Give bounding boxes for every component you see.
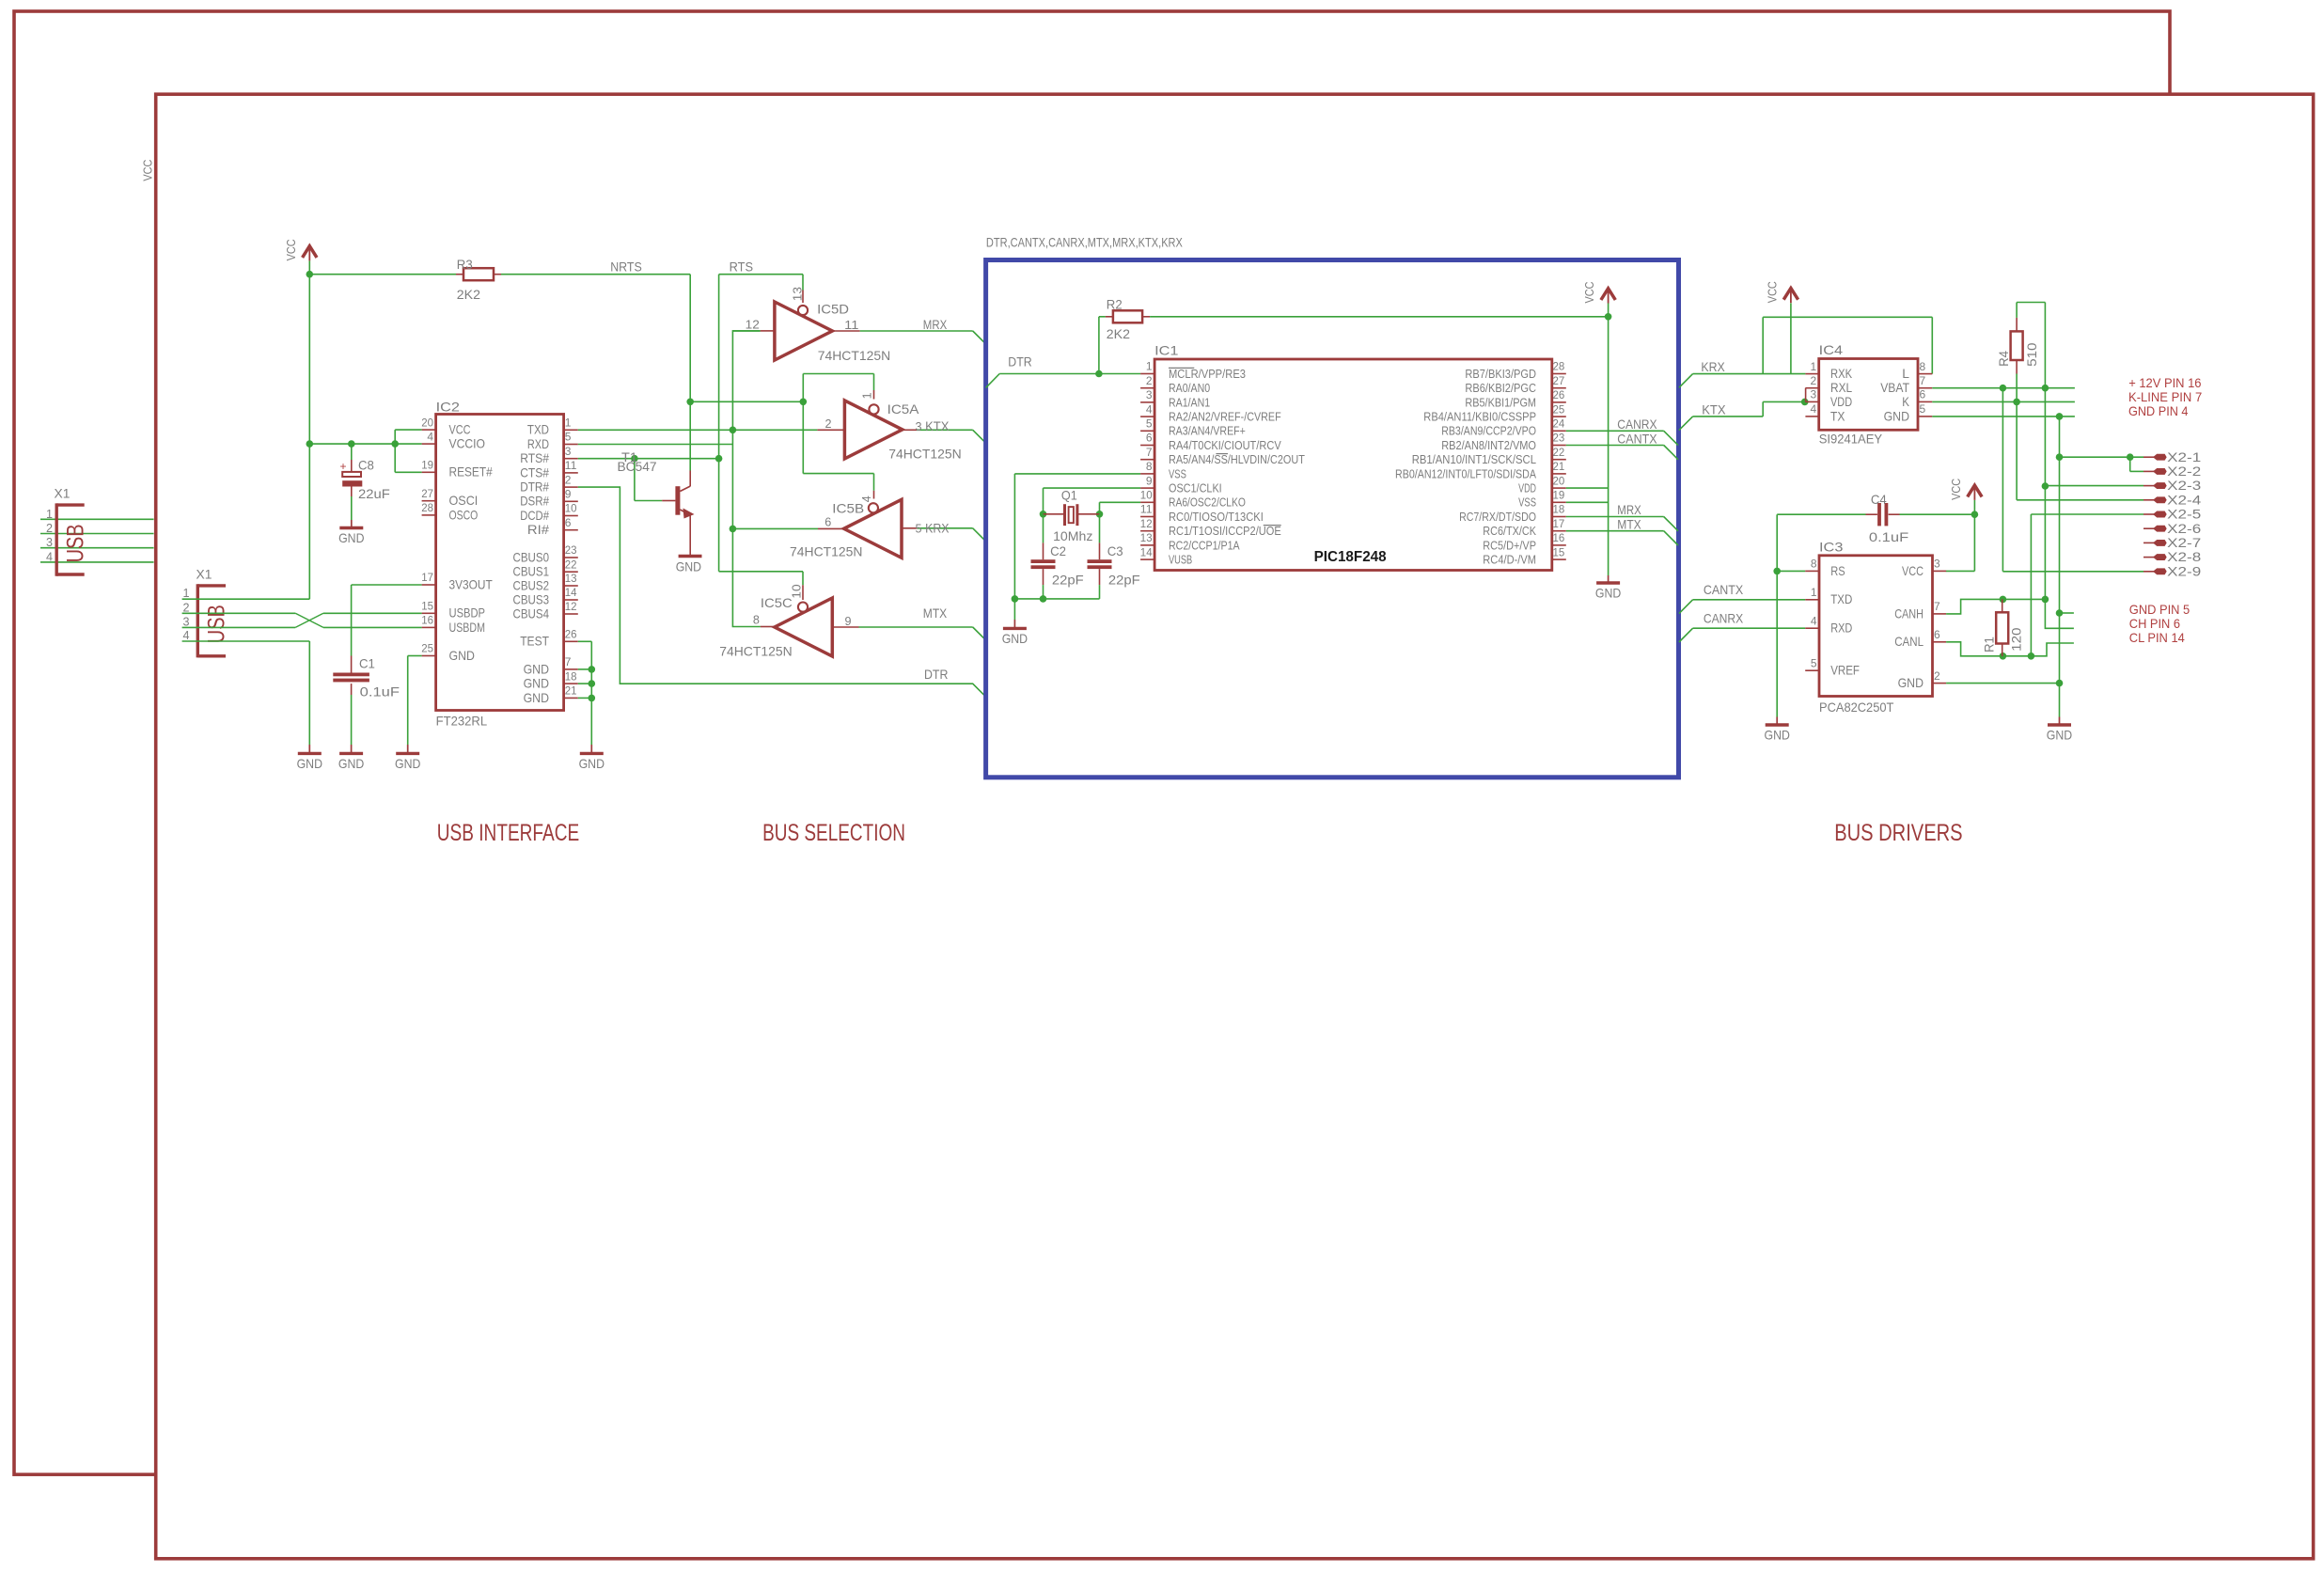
svg-text:18: 18 <box>565 669 577 683</box>
svg-text:21: 21 <box>1553 460 1565 473</box>
svg-text:CBUS3: CBUS3 <box>513 592 550 606</box>
svg-text:X1: X1 <box>196 567 212 582</box>
svg-text:CANL: CANL <box>1894 635 1924 649</box>
svg-text:CANH: CANH <box>1894 606 1924 621</box>
svg-text:5: 5 <box>565 431 572 444</box>
svg-text:L: L <box>1902 367 1909 381</box>
svg-text:19: 19 <box>421 459 433 472</box>
svg-text:2: 2 <box>1146 374 1153 387</box>
svg-text:IC1: IC1 <box>1154 343 1179 358</box>
svg-text:RC7/RX/DT/SDO: RC7/RX/DT/SDO <box>1459 511 1536 524</box>
svg-text:5: 5 <box>916 523 922 536</box>
svg-text:6: 6 <box>565 516 572 529</box>
svg-text:VCC: VCC <box>284 239 298 260</box>
svg-text:GND: GND <box>676 558 701 574</box>
svg-text:22: 22 <box>1553 446 1565 459</box>
svg-text:VCC: VCC <box>1582 282 1596 304</box>
svg-text:RC0/TIOSO/T13CKI: RC0/TIOSO/T13CKI <box>1169 511 1264 524</box>
svg-text:2: 2 <box>46 522 53 535</box>
svg-text:17: 17 <box>1553 517 1565 530</box>
svg-text:RB1/AN10/INT1/SCK/SCL: RB1/AN10/INT1/SCK/SCL <box>1412 453 1536 466</box>
svg-text:23: 23 <box>565 543 577 557</box>
svg-text:12: 12 <box>565 600 577 613</box>
svg-text:VUSB: VUSB <box>1169 554 1192 567</box>
svg-text:RTS#: RTS# <box>520 451 549 465</box>
svg-text:14: 14 <box>1140 545 1153 558</box>
svg-text:12: 12 <box>1140 517 1153 530</box>
svg-text:3: 3 <box>1146 388 1153 401</box>
svg-text:MRX: MRX <box>1617 502 1641 517</box>
svg-text:GND PIN 5: GND PIN 5 <box>2129 602 2191 617</box>
svg-text:DTR: DTR <box>1008 354 1031 369</box>
svg-text:VCC: VCC <box>140 160 154 181</box>
svg-text:+ 12V PIN 16: + 12V PIN 16 <box>2128 375 2201 390</box>
svg-text:X2-4: X2-4 <box>2167 492 2201 507</box>
svg-text:VDD: VDD <box>1518 482 1536 495</box>
svg-text:4: 4 <box>1811 402 1817 416</box>
svg-text:K-LINE PIN 7: K-LINE PIN 7 <box>2128 389 2202 404</box>
svg-text:USBDM: USBDM <box>449 621 486 635</box>
svg-text:RXL: RXL <box>1830 381 1852 395</box>
svg-text:MRX: MRX <box>923 317 948 332</box>
svg-text:RXD: RXD <box>527 437 549 451</box>
svg-text:MTX: MTX <box>923 605 948 621</box>
svg-text:1: 1 <box>46 508 53 521</box>
svg-text:USB: USB <box>64 524 89 562</box>
svg-text:GND: GND <box>1898 676 1924 690</box>
svg-text:MTX: MTX <box>1617 516 1641 531</box>
svg-text:11: 11 <box>1140 503 1153 516</box>
svg-text:24: 24 <box>1553 417 1565 431</box>
svg-text:RA5/AN4/SS/HLVDIN/C2OUT: RA5/AN4/SS/HLVDIN/C2OUT <box>1169 453 1305 466</box>
svg-text:16: 16 <box>1553 531 1565 544</box>
svg-text:5: 5 <box>1146 417 1153 431</box>
svg-text:C8: C8 <box>358 457 374 472</box>
svg-text:CANTX: CANTX <box>1704 582 1744 597</box>
svg-text:DTR: DTR <box>924 667 948 682</box>
svg-text:GND: GND <box>449 649 476 663</box>
svg-text:RC6/TX/CK: RC6/TX/CK <box>1483 525 1536 538</box>
svg-text:7: 7 <box>1146 446 1153 459</box>
svg-text:IC2: IC2 <box>436 400 461 415</box>
svg-text:IC3: IC3 <box>1819 539 1844 554</box>
svg-text:26: 26 <box>565 628 577 641</box>
svg-text:RA4/T0CKI/CIOUT/RCV: RA4/T0CKI/CIOUT/RCV <box>1169 439 1281 452</box>
svg-text:8: 8 <box>1146 460 1153 473</box>
svg-text:4: 4 <box>1146 402 1153 416</box>
svg-text:10Mhz: 10Mhz <box>1053 528 1092 543</box>
svg-text:PIC18F248: PIC18F248 <box>1314 549 1387 565</box>
svg-text:GND: GND <box>1002 631 1028 646</box>
svg-text:VCC: VCC <box>1902 564 1924 578</box>
svg-text:X2-5: X2-5 <box>2167 507 2201 522</box>
svg-text:3: 3 <box>1934 558 1940 571</box>
svg-text:4: 4 <box>182 629 189 642</box>
svg-text:RXK: RXK <box>1830 367 1852 381</box>
svg-text:7: 7 <box>1934 600 1940 613</box>
svg-text:2: 2 <box>182 601 189 614</box>
svg-text:TEST: TEST <box>520 635 549 649</box>
svg-text:74HCT125N: 74HCT125N <box>790 544 863 559</box>
svg-text:C3: C3 <box>1107 543 1123 558</box>
svg-text:1: 1 <box>1146 360 1153 373</box>
svg-text:25: 25 <box>1553 402 1565 416</box>
svg-text:27: 27 <box>421 487 433 500</box>
svg-text:12: 12 <box>746 318 760 331</box>
svg-text:CBUS0: CBUS0 <box>513 550 550 564</box>
svg-text:CBUS1: CBUS1 <box>513 565 550 579</box>
svg-text:IC5D: IC5D <box>817 301 849 316</box>
svg-text:10: 10 <box>565 502 577 515</box>
svg-text:16: 16 <box>421 614 433 627</box>
svg-text:2K2: 2K2 <box>1107 326 1130 341</box>
svg-text:GND: GND <box>338 756 364 771</box>
svg-text:5: 5 <box>1920 402 1926 416</box>
svg-text:8: 8 <box>1920 360 1926 373</box>
svg-text:CBUS4: CBUS4 <box>513 606 550 621</box>
svg-text:15: 15 <box>1553 545 1565 558</box>
svg-text:X2-9: X2-9 <box>2167 563 2201 578</box>
svg-text:GND: GND <box>1884 409 1910 423</box>
svg-text:1: 1 <box>861 392 874 399</box>
svg-text:R3: R3 <box>457 257 473 272</box>
svg-text:1: 1 <box>1811 360 1817 373</box>
svg-text:GND: GND <box>1765 728 1790 743</box>
svg-text:15: 15 <box>421 600 433 613</box>
svg-text:2K2: 2K2 <box>457 287 480 302</box>
svg-text:DSR#: DSR# <box>520 495 549 509</box>
svg-text:3: 3 <box>565 445 572 458</box>
svg-text:PCA82C250T: PCA82C250T <box>1819 700 1894 715</box>
svg-text:VREF: VREF <box>1830 664 1860 678</box>
svg-text:GND PIN 4: GND PIN 4 <box>2128 403 2189 418</box>
svg-text:1: 1 <box>182 587 189 600</box>
svg-text:20: 20 <box>1553 474 1565 487</box>
svg-text:GND: GND <box>1595 586 1621 601</box>
svg-text:BUS SELECTION: BUS SELECTION <box>762 820 905 846</box>
svg-text:GND: GND <box>395 756 420 771</box>
svg-text:CTS#: CTS# <box>520 465 549 479</box>
svg-text:KRX: KRX <box>925 521 950 536</box>
svg-text:CANRX: CANRX <box>1617 417 1657 432</box>
svg-text:VCC: VCC <box>449 423 471 437</box>
svg-text:13: 13 <box>791 287 804 301</box>
svg-text:RESET#: RESET# <box>449 465 494 479</box>
svg-text:RB4/AN11/KBI0/CSSPP: RB4/AN11/KBI0/CSSPP <box>1423 411 1536 424</box>
svg-text:OSC1/CLKI: OSC1/CLKI <box>1169 482 1222 495</box>
svg-text:SI9241AEY: SI9241AEY <box>1819 432 1883 447</box>
svg-text:74HCT125N: 74HCT125N <box>818 348 891 363</box>
svg-text:10: 10 <box>1140 489 1153 502</box>
svg-text:RB6/KBI2/PGC: RB6/KBI2/PGC <box>1465 382 1536 395</box>
svg-text:USB INTERFACE: USB INTERFACE <box>437 820 579 846</box>
svg-text:TXD: TXD <box>527 423 549 437</box>
svg-text:3: 3 <box>182 615 189 628</box>
svg-text:K: K <box>1902 395 1909 409</box>
svg-text:22pF: 22pF <box>1052 573 1084 588</box>
svg-text:RB5/KBI1/PGM: RB5/KBI1/PGM <box>1465 396 1536 409</box>
svg-text:25: 25 <box>421 642 433 655</box>
svg-text:4: 4 <box>427 430 433 443</box>
svg-text:X1: X1 <box>55 486 71 501</box>
svg-text:C2: C2 <box>1050 543 1066 558</box>
svg-text:X2-6: X2-6 <box>2167 521 2201 536</box>
svg-text:RC4/D-/VM: RC4/D-/VM <box>1483 554 1536 567</box>
svg-text:9: 9 <box>1146 474 1153 487</box>
svg-text:13: 13 <box>565 572 577 585</box>
svg-text:3V3OUT: 3V3OUT <box>449 577 493 591</box>
svg-text:VCCIO: VCCIO <box>449 437 486 451</box>
svg-text:R4: R4 <box>1996 351 2011 367</box>
svg-text:8: 8 <box>1811 558 1817 571</box>
svg-text:5: 5 <box>1811 656 1817 669</box>
svg-text:27: 27 <box>1553 374 1565 387</box>
svg-text:14: 14 <box>565 586 577 599</box>
svg-text:RB7/BKI3/PGD: RB7/BKI3/PGD <box>1465 368 1536 381</box>
svg-text:RB3/AN9/CCP2/VPO: RB3/AN9/CCP2/VPO <box>1441 425 1536 438</box>
svg-text:4: 4 <box>1811 614 1817 627</box>
svg-text:1: 1 <box>1811 586 1817 599</box>
svg-text:VDD: VDD <box>1830 395 1852 409</box>
svg-text:X2-1: X2-1 <box>2167 449 2201 464</box>
svg-text:RXD: RXD <box>1830 621 1852 636</box>
svg-text:GND: GND <box>524 677 550 691</box>
svg-text:RS: RS <box>1830 564 1845 578</box>
svg-text:11: 11 <box>565 459 577 472</box>
svg-text:28: 28 <box>421 501 433 514</box>
svg-text:19: 19 <box>1553 489 1565 502</box>
svg-text:KTX: KTX <box>925 418 950 433</box>
svg-text:8: 8 <box>753 614 760 627</box>
svg-text:74HCT125N: 74HCT125N <box>719 644 793 659</box>
svg-text:6: 6 <box>1146 432 1153 445</box>
svg-text:21: 21 <box>565 684 577 698</box>
svg-text:GND: GND <box>338 530 364 545</box>
svg-text:TX: TX <box>1830 409 1845 423</box>
svg-text:BC547: BC547 <box>618 459 657 474</box>
svg-text:RC2/CCP1/P1A: RC2/CCP1/P1A <box>1169 539 1240 552</box>
svg-text:VCC: VCC <box>1949 479 1963 500</box>
svg-text:RA6/OSC2/CLKO: RA6/OSC2/CLKO <box>1169 496 1246 510</box>
svg-text:22: 22 <box>565 558 577 571</box>
svg-text:Q1: Q1 <box>1061 488 1077 503</box>
svg-text:R2: R2 <box>1107 297 1123 312</box>
svg-text:VSS: VSS <box>1169 467 1186 480</box>
svg-text:18: 18 <box>1553 503 1565 516</box>
svg-text:FT232RL: FT232RL <box>436 713 488 728</box>
svg-text:X2-3: X2-3 <box>2167 478 2201 493</box>
svg-text:6: 6 <box>1934 628 1940 641</box>
svg-text:2: 2 <box>565 473 572 486</box>
svg-text:11: 11 <box>844 319 858 332</box>
svg-text:RTS: RTS <box>730 259 753 275</box>
svg-text:RB0/AN12/INT0/LFT0/SDI/SDA: RB0/AN12/INT0/LFT0/SDI/SDA <box>1395 467 1537 480</box>
svg-text:CANTX: CANTX <box>1617 431 1657 446</box>
svg-text:2: 2 <box>1811 374 1817 387</box>
svg-text:0.1uF: 0.1uF <box>1869 529 1908 544</box>
svg-text:KTX: KTX <box>1702 401 1726 417</box>
svg-text:CH PIN 6: CH PIN 6 <box>2129 616 2180 631</box>
svg-text:20: 20 <box>421 416 433 429</box>
svg-text:17: 17 <box>421 571 433 584</box>
svg-text:120: 120 <box>2008 627 2023 652</box>
svg-text:RA2/AN2/VREF-/CVREF: RA2/AN2/VREF-/CVREF <box>1169 411 1281 424</box>
svg-text:RB2/AN8/INT2/VMO: RB2/AN8/INT2/VMO <box>1441 439 1536 452</box>
svg-text:GND: GND <box>579 756 605 771</box>
svg-text:6: 6 <box>824 516 831 529</box>
svg-text:IC5C: IC5C <box>761 595 793 610</box>
svg-text:28: 28 <box>1553 360 1565 373</box>
svg-text:RC1/T1OSI/ICCP2/UOE: RC1/T1OSI/ICCP2/UOE <box>1169 525 1281 538</box>
svg-text:3: 3 <box>1811 388 1817 401</box>
svg-text:CL PIN 14: CL PIN 14 <box>2129 630 2185 645</box>
svg-text:BUS DRIVERS: BUS DRIVERS <box>1834 820 1962 846</box>
svg-text:USB: USB <box>205 605 230 643</box>
svg-text:DTR,CANTX,CANRX,MTX,MRX,KTX,KR: DTR,CANTX,CANRX,MTX,MRX,KTX,KRX <box>986 235 1184 250</box>
svg-text:7: 7 <box>1920 374 1926 387</box>
svg-text:C1: C1 <box>359 655 375 670</box>
svg-text:R1: R1 <box>1982 637 1997 652</box>
svg-text:GND: GND <box>524 662 550 676</box>
svg-text:23: 23 <box>1553 432 1565 445</box>
svg-text:7: 7 <box>565 655 572 668</box>
svg-text:6: 6 <box>1920 388 1926 401</box>
svg-text:MCLR/VPP/RE3: MCLR/VPP/RE3 <box>1169 368 1246 381</box>
svg-text:DCD#: DCD# <box>520 509 549 523</box>
svg-text:X2-8: X2-8 <box>2167 549 2201 564</box>
svg-text:C4: C4 <box>1871 492 1887 507</box>
svg-text:X2-7: X2-7 <box>2167 535 2201 550</box>
svg-text:DTR#: DTR# <box>520 480 549 495</box>
svg-text:IC5A: IC5A <box>887 401 920 417</box>
svg-text:CBUS2: CBUS2 <box>513 578 550 592</box>
svg-text:26: 26 <box>1553 388 1565 401</box>
svg-text:IC4: IC4 <box>1819 342 1844 357</box>
svg-text:RA1/AN1: RA1/AN1 <box>1169 396 1210 409</box>
svg-text:1: 1 <box>565 417 572 430</box>
svg-text:VBAT: VBAT <box>1880 381 1909 395</box>
svg-text:2: 2 <box>824 417 831 431</box>
svg-text:KRX: KRX <box>1701 359 1725 374</box>
svg-text:VSS: VSS <box>1518 496 1536 510</box>
svg-text:RI#: RI# <box>527 523 550 537</box>
svg-text:OSCI: OSCI <box>449 494 479 508</box>
svg-text:RA0/AN0: RA0/AN0 <box>1169 382 1210 395</box>
svg-text:X2-2: X2-2 <box>2167 464 2201 479</box>
svg-text:USBDP: USBDP <box>449 606 486 621</box>
svg-text:510: 510 <box>2024 342 2039 367</box>
svg-text:TXD: TXD <box>1830 592 1852 606</box>
svg-text:9: 9 <box>565 488 572 501</box>
svg-text:CANRX: CANRX <box>1704 610 1744 625</box>
svg-text:22uF: 22uF <box>358 486 390 501</box>
svg-text:OSCO: OSCO <box>449 508 479 522</box>
svg-text:NRTS: NRTS <box>610 259 642 275</box>
svg-text:VCC: VCC <box>1766 281 1780 303</box>
svg-text:0.1uF: 0.1uF <box>360 684 400 700</box>
svg-text:4: 4 <box>46 550 53 563</box>
svg-text:74HCT125N: 74HCT125N <box>888 447 962 462</box>
svg-text:RA3/AN4/VREF+: RA3/AN4/VREF+ <box>1169 425 1246 438</box>
svg-text:GND: GND <box>2047 728 2072 743</box>
svg-text:22pF: 22pF <box>1108 573 1140 588</box>
svg-text:13: 13 <box>1140 531 1153 544</box>
svg-text:+: + <box>339 460 346 473</box>
svg-text:3: 3 <box>46 536 53 549</box>
svg-text:3: 3 <box>916 420 922 433</box>
svg-text:10: 10 <box>791 584 804 598</box>
svg-text:2: 2 <box>1934 669 1940 683</box>
svg-text:IC5B: IC5B <box>832 501 864 516</box>
svg-text:GND: GND <box>297 756 322 771</box>
svg-text:GND: GND <box>524 691 550 705</box>
svg-text:9: 9 <box>845 615 852 628</box>
svg-text:RC5/D+/VP: RC5/D+/VP <box>1483 539 1536 552</box>
